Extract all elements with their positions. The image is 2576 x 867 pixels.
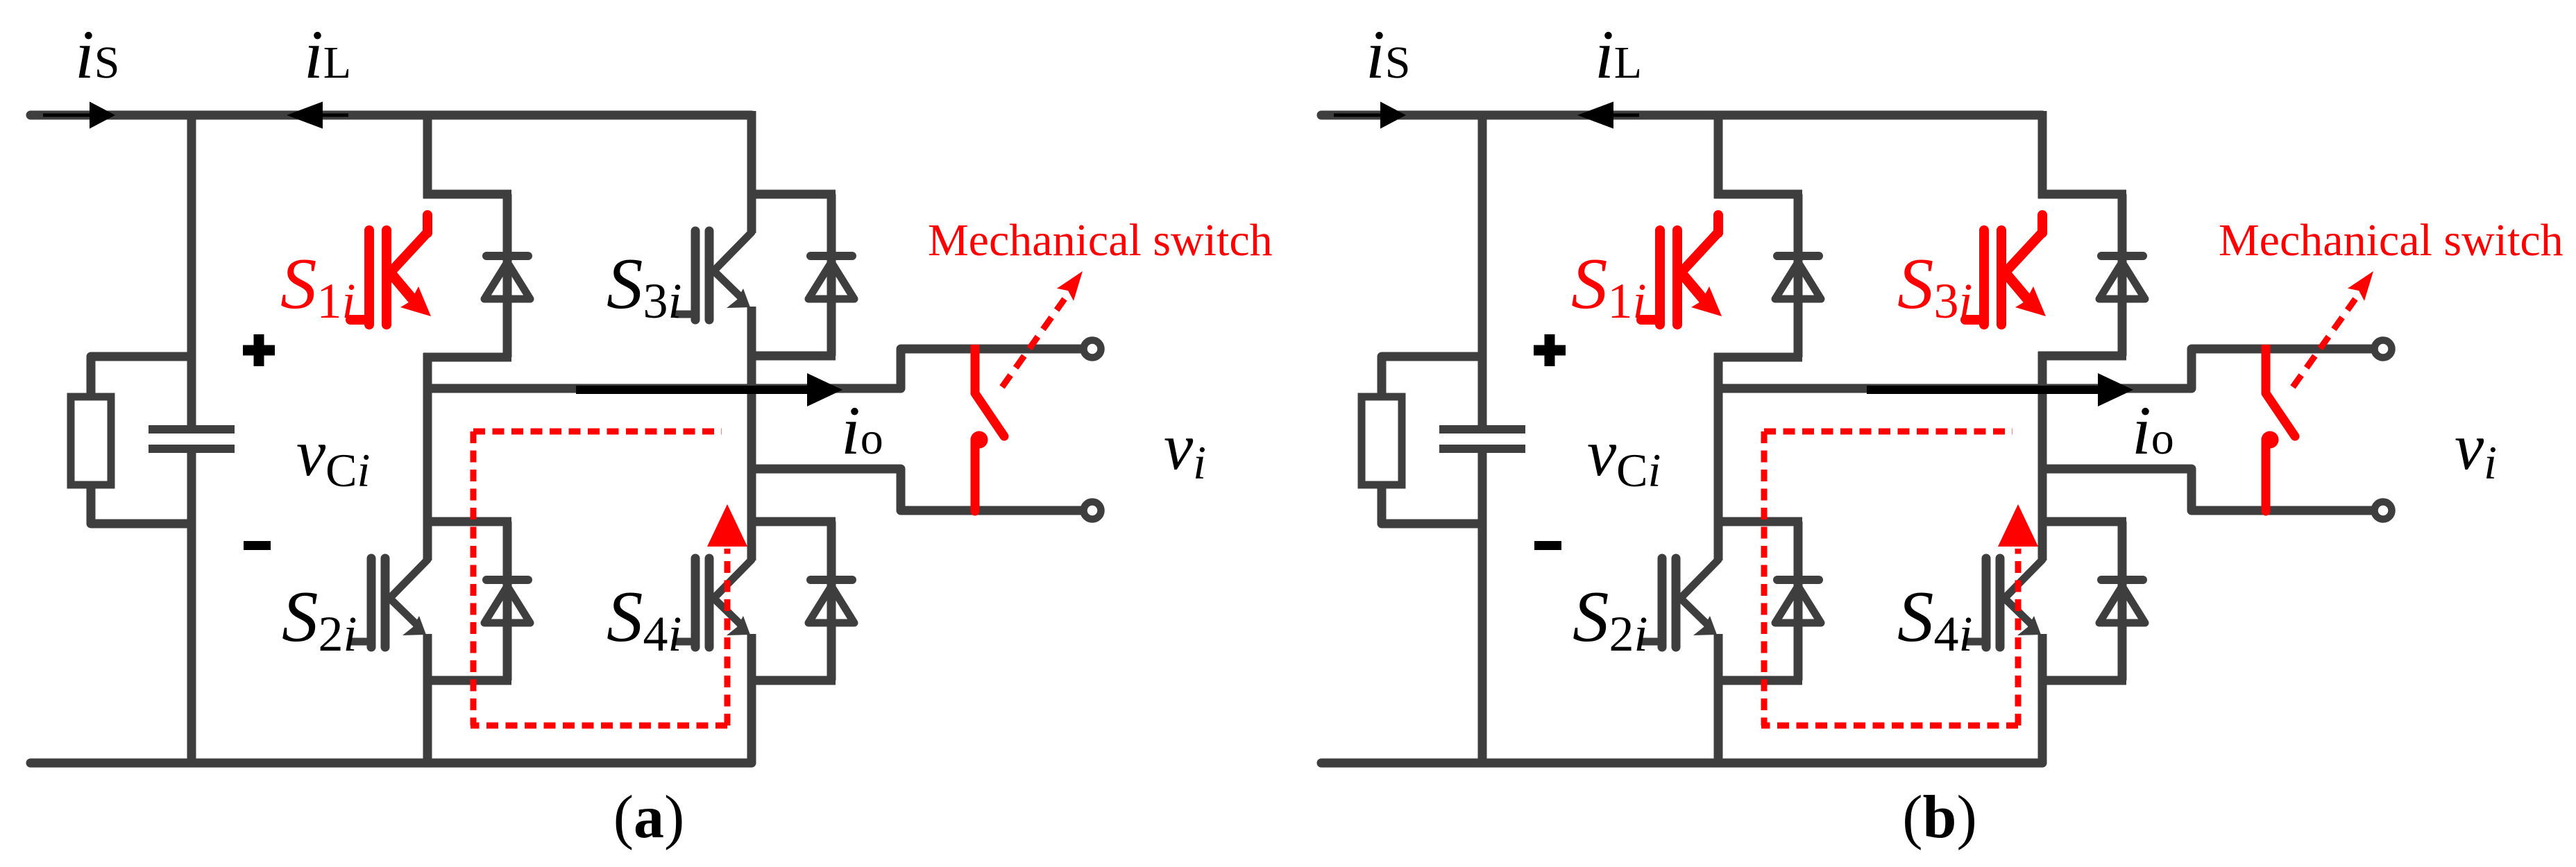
wire S1 diode branch (a) [503, 194, 512, 357]
mechanical switch symbol (a) [971, 345, 1005, 511]
diode D3 (b) (freewheeling, pointing up) [2099, 256, 2145, 303]
current direction arrow on loop (a) [707, 504, 747, 547]
output current arrow io (b) [1867, 373, 2133, 406]
wire S3 diode branch (a) [827, 194, 836, 356]
current arrow iS (a) [43, 102, 115, 129]
wire S2 diode branch (b) [1794, 522, 1803, 680]
wire S1 bottom jog (a) [423, 353, 511, 362]
wire left rail lower (b) [1478, 453, 1487, 763]
annotation dashed arrow (b) [2293, 271, 2373, 387]
transistor S3 (a) (IGBT) [676, 194, 752, 356]
terminal lower (b) [2375, 502, 2392, 520]
wire bridge right leg middle (b) [2038, 352, 2047, 526]
dashed current loop box (b) [1761, 431, 2018, 726]
wire bridge left leg bottom (a) [423, 676, 432, 763]
wire output lower to lower terminal (b) [2042, 469, 2373, 510]
diode D4 (b) (freewheeling, pointing up) [2099, 580, 2145, 627]
svg-text:(b): (b) [1902, 784, 1977, 851]
label - polarity (b) [1534, 541, 1561, 550]
wire left rail upper (a) [187, 111, 196, 425]
transistor S4 (a) (IGBT) [676, 522, 752, 683]
dashed current loop box (a) [471, 431, 727, 726]
wire top bus (a) [31, 111, 752, 120]
wire S1 bottom jog (b) [1714, 353, 1802, 362]
terminal upper (b) [2375, 341, 2392, 358]
wire bridge left leg bottom (b) [1714, 676, 1723, 763]
wire output mid to upper terminal (b) [1714, 349, 2373, 388]
wire resistor branch top stub (a) [91, 357, 192, 397]
diode D3 (a) (freewheeling, pointing up) [808, 256, 854, 303]
diode D4 (a) (freewheeling, pointing up) [808, 580, 854, 627]
svg-text:(a): (a) [613, 784, 685, 851]
wire bridge right leg bottom (b) [2038, 676, 2047, 763]
diode D1 (a) (freewheeling, pointing up) [484, 256, 530, 303]
diode D1 (b) (freewheeling, pointing up) [1775, 256, 1821, 303]
wire bridge right leg top (b) [2038, 111, 2047, 198]
wire S3 diode branch (b) [2118, 194, 2127, 356]
wire resistor branch bottom stub (b) [1382, 484, 1482, 524]
wire S4 top jog (a) [747, 517, 836, 526]
wire S4 bottom jog (b) [2038, 676, 2126, 685]
wire output lower to lower terminal (a) [752, 469, 1083, 510]
wire top bus (b) [1321, 111, 2042, 120]
wire bridge right leg middle (a) [747, 352, 756, 526]
wire resistor branch bottom stub (a) [91, 484, 192, 524]
current direction arrow on loop (b) [1998, 504, 2038, 547]
wire S2 top jog (a) [423, 517, 511, 526]
wire S3 bottom jog (a) [747, 352, 836, 361]
wire bridge left leg top (b) [1714, 111, 1723, 198]
current arrow iL (b) [1577, 102, 1639, 129]
current arrow iL (a) [287, 102, 348, 129]
wire bottom bus (b) [1321, 759, 2042, 768]
wire S1 diode branch (b) [1794, 194, 1803, 357]
wire resistor branch top stub (b) [1382, 357, 1482, 397]
wire bridge right leg top (a) [747, 111, 756, 198]
transistor S2 (b) (IGBT) [1643, 522, 1718, 683]
wire S3 bottom jog (b) [2038, 352, 2126, 361]
terminal upper (a) [1084, 341, 1101, 358]
label - polarity (a) [244, 541, 271, 550]
wire S2 diode branch (a) [503, 522, 512, 680]
wire S1 top jog (a) [423, 190, 511, 199]
annotation dashed arrow (a) [1002, 271, 1083, 387]
wire S4 diode branch (b) [2118, 522, 2127, 680]
wire S2 bottom jog (a) [423, 676, 511, 685]
transistor S2 (a) (IGBT) [352, 522, 427, 683]
capacitor C (a) [149, 429, 235, 449]
wire S1 top jog (b) [1714, 190, 1802, 199]
mechanical switch symbol (b) [2262, 345, 2296, 511]
transistor S1 (a) (IGBT, red) [350, 215, 431, 325]
wire S2 bottom jog (b) [1714, 676, 1802, 685]
transistor S1 (b) (IGBT, red) [1641, 215, 1722, 325]
transistor S4 (b) (IGBT) [1967, 522, 2042, 683]
wire bottom bus (a) [31, 759, 752, 768]
label + polarity (b) [1534, 334, 1566, 366]
wire S2 top jog (b) [1714, 517, 1802, 526]
wire S3 top jog (a) [747, 190, 836, 199]
resistor R (a) [71, 397, 111, 485]
label + polarity (a) [243, 334, 275, 366]
svg-text:Mechanical switch: Mechanical switch [2219, 215, 2564, 266]
wire output mid to upper terminal (a) [423, 349, 1083, 388]
capacitor C (b) [1439, 429, 1525, 449]
transistor S3 (b) (IGBT, red) [1965, 215, 2046, 325]
svg-text:Mechanical switch: Mechanical switch [928, 215, 1273, 266]
wire left rail upper (b) [1478, 111, 1487, 425]
wire S4 top jog (b) [2038, 517, 2126, 526]
diode D2 (a) (freewheeling, pointing up) [484, 580, 530, 627]
wire bridge left leg middle (b) [1714, 353, 1723, 526]
wire S4 diode branch (a) [827, 522, 836, 680]
wire S3 top jog (b) [2038, 190, 2126, 199]
wire bridge right leg bottom (a) [747, 676, 756, 763]
wire bridge left leg top (a) [423, 111, 432, 198]
diode D2 (b) (freewheeling, pointing up) [1775, 580, 1821, 627]
wire S4 bottom jog (a) [747, 676, 836, 685]
output current arrow io (a) [576, 373, 842, 406]
wire left rail lower (a) [187, 453, 196, 763]
resistor R (b) [1362, 397, 1402, 485]
current arrow iS (b) [1334, 102, 1406, 129]
terminal lower (a) [1084, 502, 1101, 520]
wire bridge left leg middle (a) [423, 353, 432, 526]
